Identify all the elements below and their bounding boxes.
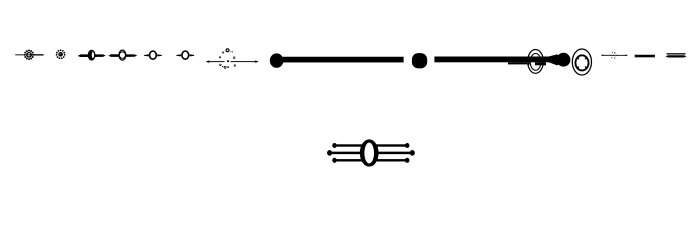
lens L4 [182,51,189,59]
wire W9 (thin axis with mini node) [601,52,628,59]
lead left-mid [327,150,365,156]
body ellipse [360,139,379,166]
node E (blob at end of bus) [549,53,571,67]
wire W8 lower step [508,62,546,66]
wire W5b [190,54,195,56]
wire W2 [78,54,106,57]
ring R1 (double ellipse) [528,50,544,74]
node A1 (dotted rosette with open center) [24,50,35,61]
wire W3 [108,54,137,57]
axis W6 with arrow tips [206,60,259,63]
wire W8 (thick bus) [434,57,549,63]
wire W5a [176,54,181,56]
bar B2 (double bar) [666,53,687,57]
ring R2 (double ellipse with notched inner ring) [572,49,591,75]
node B (dot with ring of small circles) [219,48,236,68]
wire W4a [144,54,149,56]
bar B1 (thick dash with pointed ends) [635,55,655,58]
node D (filled rounded square) [412,53,427,68]
lens L1 (ellipse with inner mark) [88,50,94,59]
lead left-top [332,143,365,148]
node A2 (dotted rosette with filled center) [56,49,66,59]
lead right-top [373,143,409,148]
lead left-bottom [332,158,365,163]
wire W7 (thick bus) [283,57,404,63]
lens L3 [150,51,157,59]
component X1 (ellipse with triple leads and ball ends) [327,139,415,166]
wire W1 [15,54,43,55]
node C (large filled circle) [270,53,284,67]
lead right-bottom [373,158,409,163]
lead right-mid [373,150,415,156]
wire W4b [157,54,162,56]
lens L2 (double-arc ellipse) [119,50,126,60]
